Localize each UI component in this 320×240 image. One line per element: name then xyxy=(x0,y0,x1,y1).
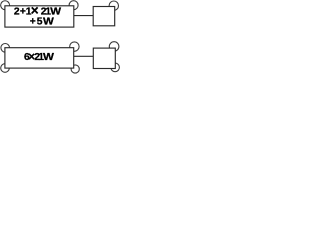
lamp group box K2 terminal circle bottom-left xyxy=(1,64,10,73)
connector box X1 terminal circle top-right xyxy=(109,1,118,10)
lamp group box K2 (6x21W) xyxy=(5,48,74,68)
wire W2 xyxy=(74,55,93,57)
lamp group box K1 terminal circle top-left xyxy=(1,1,10,10)
lamp group box K1 (2+1x21W +5W) xyxy=(5,6,74,27)
connector box X2 terminal circle bottom-right xyxy=(111,63,120,72)
connector box X2 terminal circle top-right xyxy=(109,42,119,52)
lamp group box K2 terminal circle bottom-right xyxy=(71,65,79,73)
lamp group box K1 terminal circle top-right xyxy=(69,1,78,10)
svg-text:5: 5 xyxy=(37,17,43,28)
svg-text:W: W xyxy=(43,52,54,63)
wire W1 xyxy=(74,15,93,17)
connector box X1 xyxy=(93,7,115,26)
label value 6x21W xyxy=(24,52,54,64)
connector box X2 xyxy=(93,48,115,68)
label value +5W xyxy=(30,17,54,28)
label value 2+1x21W xyxy=(14,3,61,18)
svg-text:+: + xyxy=(30,17,36,28)
lamp group box K2 terminal circle top-right xyxy=(70,42,79,51)
lamp group box K2 terminal circle top-left xyxy=(1,44,10,53)
svg-text:W: W xyxy=(43,17,54,28)
